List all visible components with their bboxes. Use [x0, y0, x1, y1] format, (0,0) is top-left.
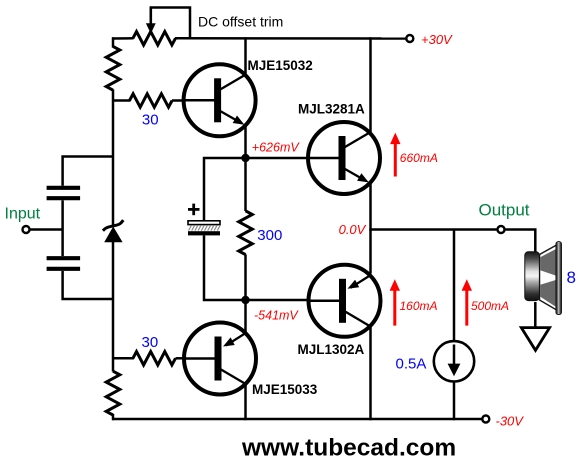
wire output rail: [371, 228, 498, 231]
resistor R2 left upper: [106, 46, 120, 90]
resistor R1 30 upper: [130, 94, 173, 107]
svg-text:Input: Input: [5, 206, 41, 223]
transistor Q2 MJL3281A NPN: [308, 122, 380, 194]
transistor Q1 MJE15032 NPN: [184, 64, 256, 136]
wire node A to R300: [244, 158, 247, 211]
label 0.0V: [339, 222, 367, 237]
label MJL3281A: [298, 101, 365, 116]
svg-text:0.5A: 0.5A: [396, 356, 427, 373]
label -30V: [496, 413, 525, 428]
resistor R3 300: [239, 211, 253, 255]
resistor R5 left lower: [106, 371, 120, 415]
wire node B to Q3 base: [246, 299, 309, 302]
wire top rail +30V: [175, 37, 406, 40]
current arrow 660mA: [390, 133, 400, 177]
terminal +30V: [406, 35, 413, 42]
label -541mV: [254, 309, 299, 323]
svg-text:MJL3281A: MJL3281A: [298, 101, 365, 116]
svg-text:8: 8: [567, 268, 576, 287]
svg-text:www.tubecad.com: www.tubecad.com: [241, 435, 456, 462]
capacitor C2 input bottom: [47, 258, 81, 269]
wire Q4 collector to rail: [244, 385, 247, 421]
wire R4 to Q4 base: [176, 357, 185, 360]
svg-text:0.0V: 0.0V: [339, 222, 367, 237]
current source I1 0.5A: [434, 341, 474, 381]
node A junction dot +626mV: [241, 154, 249, 162]
svg-text:-30V: -30V: [496, 413, 525, 428]
svg-text:-541mV: -541mV: [254, 309, 299, 323]
terminal Output: [498, 226, 505, 233]
value 30 upper: [142, 112, 159, 129]
wire output to speaker: [505, 229, 537, 255]
svg-text:MJE15033: MJE15033: [252, 382, 318, 397]
C3 plus sign: [188, 204, 200, 216]
label +626mV: [252, 141, 301, 155]
svg-text:300: 300: [257, 227, 282, 244]
zener diode D1: [103, 220, 123, 242]
svg-text:MJE15032: MJE15032: [248, 58, 313, 73]
wire Q3 emitter to output: [369, 229, 372, 274]
potentiometer P1 DC offset trim: [133, 32, 176, 45]
resistor R4 30 lower: [133, 352, 176, 365]
wire left to R1: [112, 99, 131, 102]
wire R300 to node B: [244, 254, 247, 300]
speaker LS1: [525, 242, 562, 315]
svg-text:MJL1302A: MJL1302A: [298, 342, 365, 357]
svg-text:660mA: 660mA: [400, 151, 438, 165]
label 660mA: [400, 151, 438, 165]
wire left vertical lower: [112, 241, 115, 372]
value 300: [257, 227, 282, 244]
wire input caps top: [63, 157, 113, 186]
capacitor C3 electrolytic: [188, 221, 220, 236]
value 8 ohms: [567, 268, 576, 287]
value 30 lower: [142, 334, 159, 351]
capacitor C1 input top: [47, 188, 81, 198]
node B junction dot -541mV: [241, 296, 249, 304]
svg-text:160mA: 160mA: [400, 299, 438, 313]
wire speaker to ground: [534, 302, 537, 328]
current arrow 500mA: [462, 279, 472, 325]
wire left vertical bottom: [112, 414, 115, 420]
transistor Q3 MJL1302A PNP: [309, 265, 381, 337]
terminal Input: [23, 226, 30, 233]
svg-text:+626mV: +626mV: [252, 141, 301, 155]
wire C3 top to node A: [204, 158, 246, 221]
terminal -30V: [482, 416, 489, 423]
transistor Q4 MJE15033 PNP: [184, 323, 256, 395]
wire top rail left: [112, 37, 134, 40]
label MJL1302A: [298, 342, 365, 357]
wire left vertical upper: [112, 37, 115, 47]
label www.tubecad.com: [241, 435, 456, 462]
label MJE15033: [252, 382, 318, 397]
wire Q2 collector to rail: [369, 37, 372, 132]
label 500mA: [471, 299, 509, 313]
wire between input caps: [61, 200, 64, 256]
label MJE15032: [248, 58, 313, 73]
value 0.5A: [396, 356, 427, 373]
wire left vertical mid: [112, 90, 115, 228]
label DC offset trim: [198, 14, 283, 30]
svg-text:Output: Output: [479, 201, 530, 220]
current arrow 160mA: [390, 279, 400, 325]
label +30V: [421, 32, 453, 47]
pot wiper arrow: [146, 8, 156, 34]
wire Q2 emitter to output: [369, 184, 372, 231]
wire output to I1: [453, 229, 456, 342]
wire left to R4: [112, 357, 134, 360]
label 160mA: [400, 299, 438, 313]
wire R1 to Q1 base: [172, 99, 184, 102]
wire I1 to rail: [453, 382, 456, 420]
svg-text:500mA: 500mA: [471, 299, 509, 313]
wire node A to Q2 base: [246, 157, 309, 160]
wire bottom rail -30V: [112, 418, 482, 421]
label Output: [479, 201, 530, 220]
svg-text:DC offset trim: DC offset trim: [198, 14, 283, 30]
svg-text:+30V: +30V: [421, 32, 453, 47]
wire Q3 collector to rail: [369, 325, 372, 421]
label Input: [5, 206, 41, 223]
wire pot wiper loop: [151, 8, 190, 40]
wire Q1 emitter to node A: [244, 127, 247, 159]
wire Q1 collector to rail: [244, 37, 247, 74]
wire C3 bottom to node B: [204, 236, 246, 301]
svg-text:30: 30: [142, 112, 159, 129]
wire input terminal to caps: [30, 228, 63, 231]
svg-text:30: 30: [142, 334, 159, 351]
wire input caps bottom: [63, 271, 113, 299]
ground: [521, 328, 549, 351]
wire node B to Q4 emitter: [244, 300, 247, 333]
